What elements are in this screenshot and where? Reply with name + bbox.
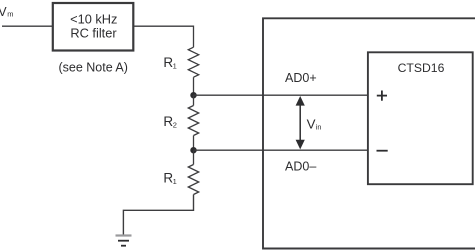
RC filter block [53, 3, 134, 51]
wire: RC filter output to top of divider [134, 26, 194, 47]
Vin arrow (double headed) [299, 102, 301, 144]
wire: R1 bottom to ground [123, 195, 193, 236]
wire: R2 to node AD0- [193, 136, 195, 151]
svg-text:CTSD16: CTSD16 [398, 61, 445, 75]
wire: node AD0+ to CTSD16 plus input [194, 94, 368, 96]
svg-text:<10 kHz: <10 kHz [70, 11, 117, 26]
wire: R1 to node AD0+ [193, 77, 195, 95]
svg-text:V: V [0, 5, 7, 19]
svg-text:1: 1 [173, 177, 177, 186]
svg-text:m: m [7, 9, 13, 18]
svg-text:2: 2 [173, 121, 177, 130]
ground [116, 234, 132, 236]
pin + (plus sign) [377, 95, 387, 97]
node junction AD0+ dot [190, 92, 196, 98]
svg-text:AD0+: AD0+ [285, 71, 317, 85]
svg-text:(see Note A): (see Note A) [58, 61, 127, 75]
wire: node AD0- down to R1 bottom [193, 150, 195, 164]
wire: node AD0- to CTSD16 minus input [194, 149, 368, 151]
wire: input from Vm to RC filter [2, 25, 52, 27]
resistor R1 (bottom) [188, 165, 198, 195]
resistor R1 (top) [188, 47, 198, 77]
svg-text:1: 1 [173, 62, 177, 71]
svg-text:V: V [307, 116, 316, 131]
wire: node AD0+ down to R2 [193, 95, 195, 105]
node junction AD0- dot [190, 147, 196, 153]
ADC block U1 CTSD16 [368, 52, 473, 184]
pin - (minus sign) [377, 150, 388, 152]
resistor R2 [188, 106, 198, 136]
svg-text:AD0–: AD0– [285, 159, 316, 173]
svg-text:in: in [316, 123, 322, 132]
outer box: device boundary [263, 18, 475, 248]
svg-text:RC filter: RC filter [70, 26, 117, 41]
